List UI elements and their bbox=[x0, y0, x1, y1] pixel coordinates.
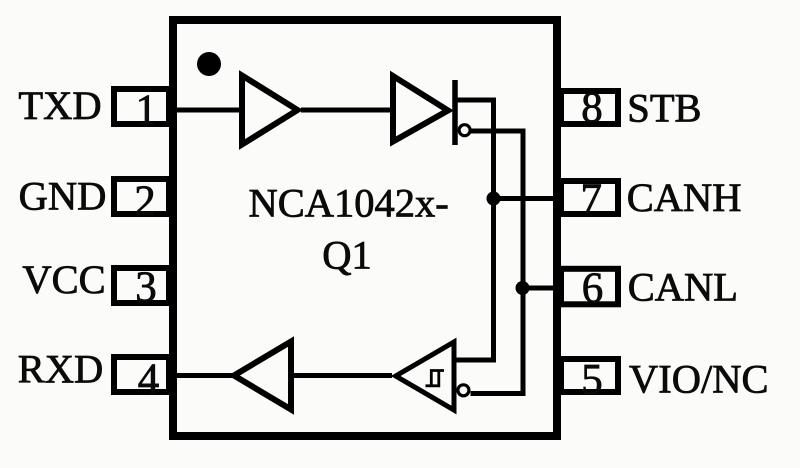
svg-text:RXD: RXD bbox=[18, 347, 104, 392]
svg-text:GND: GND bbox=[19, 174, 107, 219]
svg-text:VCC: VCC bbox=[22, 257, 105, 302]
svg-text:1: 1 bbox=[135, 87, 157, 134]
svg-text:NCA1042x-: NCA1042x- bbox=[248, 180, 448, 225]
svg-text:5: 5 bbox=[581, 356, 603, 403]
svg-text:CANL: CANL bbox=[628, 265, 738, 310]
svg-text:8: 8 bbox=[581, 84, 603, 131]
svg-text:6: 6 bbox=[582, 265, 604, 312]
svg-text:4: 4 bbox=[138, 356, 160, 403]
svg-text:CANH: CANH bbox=[627, 175, 742, 220]
svg-text:VIO/NC: VIO/NC bbox=[629, 356, 769, 401]
svg-text:Q1: Q1 bbox=[322, 232, 372, 277]
svg-text:2: 2 bbox=[134, 178, 156, 225]
svg-text:3: 3 bbox=[135, 264, 157, 311]
svg-text:STB: STB bbox=[627, 85, 701, 130]
svg-text:7: 7 bbox=[580, 176, 602, 223]
svg-text:TXD: TXD bbox=[18, 83, 101, 128]
